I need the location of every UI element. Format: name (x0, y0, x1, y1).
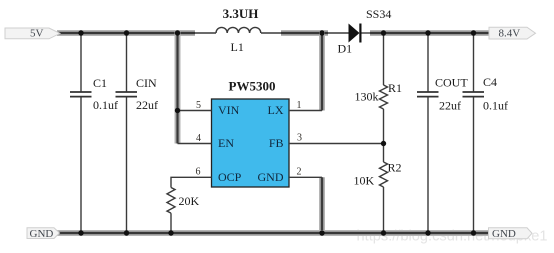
wire pin 2 GND (289, 176, 322, 178)
net flag 8.4V (489, 27, 536, 39)
wire pin 4 EN (178, 143, 212, 145)
capacitor C4 (463, 33, 509, 233)
svg-text:GND: GND (30, 228, 54, 240)
svg-text:D1: D1 (338, 42, 353, 56)
net flag GND right (489, 228, 533, 240)
junction bottom COUT (425, 230, 430, 235)
svg-text:CIN: CIN (136, 76, 157, 90)
resistor R1 130k (355, 33, 403, 162)
junction pin5 feeder (175, 108, 180, 113)
junction bottom C4 (471, 230, 476, 235)
net flag GND left (27, 228, 60, 240)
svg-text:10K: 10K (354, 174, 375, 188)
svg-text:22uf: 22uf (439, 99, 461, 113)
svg-text:6: 6 (196, 167, 201, 178)
svg-text:3.3UH: 3.3UH (223, 6, 259, 21)
junction output rail COUT (425, 30, 430, 35)
wire pin 5 VIN (178, 110, 212, 112)
svg-text:R2: R2 (388, 161, 402, 175)
svg-text:C4: C4 (483, 75, 497, 89)
svg-text:GND: GND (258, 170, 284, 184)
op-amp U1 PW5300 (212, 79, 290, 188)
capacitor C1 (70, 33, 118, 233)
svg-text:GND: GND (492, 228, 516, 240)
svg-text:PW5300: PW5300 (229, 79, 276, 94)
junction bottom GND riser (319, 230, 324, 235)
resistor R2 10K (354, 161, 402, 234)
svg-text:5V: 5V (30, 28, 44, 40)
diode D1 SS34 (328, 7, 391, 56)
svg-text:0.1uf: 0.1uf (483, 99, 508, 113)
junction top rail feeder (175, 30, 180, 35)
junction top rail CIN (124, 30, 129, 35)
junction output rail C4 (471, 30, 476, 35)
junction FB divider (381, 141, 386, 146)
svg-text:LX: LX (268, 103, 284, 117)
svg-text:0.1uf: 0.1uf (93, 98, 118, 112)
svg-text:4: 4 (196, 133, 201, 144)
junction bottom C1 (78, 230, 83, 235)
svg-text:C1: C1 (93, 76, 107, 90)
junction top rail LX riser (319, 30, 324, 35)
junction bottom R2 (381, 230, 386, 235)
wire pin 1 LX (289, 110, 322, 112)
wire LX riser vertical (319, 31, 325, 111)
wire top 5V rail (57, 30, 195, 36)
svg-text:2: 2 (297, 167, 302, 178)
svg-text:1: 1 (297, 100, 302, 111)
svg-text:5: 5 (196, 100, 201, 111)
svg-text:R1: R1 (388, 81, 402, 95)
net flag 5V (5, 28, 60, 40)
wire VIN/EN feeder vertical (175, 31, 181, 144)
wire 8.4V output rail (370, 30, 492, 36)
svg-text:FB: FB (269, 136, 284, 150)
svg-text:COUT: COUT (435, 76, 468, 90)
wire top rail inductor-to-LX segment (281, 30, 328, 36)
wire pin 6 OCP (171, 177, 212, 187)
svg-text:3: 3 (297, 133, 302, 144)
junction top rail C1 (78, 30, 83, 35)
wire GND riser vertical (319, 177, 325, 233)
svg-text:SS34: SS34 (366, 7, 391, 21)
svg-text:20K: 20K (179, 194, 200, 208)
resistor 20K (167, 188, 200, 234)
svg-text:8.4V: 8.4V (499, 28, 521, 40)
svg-text:L1: L1 (231, 40, 244, 54)
svg-text:OCP: OCP (218, 170, 242, 184)
junction bottom CIN (124, 230, 129, 235)
wire bottom GND rail (57, 230, 489, 236)
capacitor CIN (116, 33, 159, 233)
inductor L1 3.3UH (195, 6, 281, 54)
svg-text:130k: 130k (355, 90, 379, 104)
capacitor COUT (417, 33, 468, 233)
svg-text:22uf: 22uf (136, 98, 158, 112)
junction bottom 20K (168, 230, 173, 235)
wire pin 3 FB (289, 143, 384, 145)
svg-text:EN: EN (218, 136, 234, 150)
junction output rail R1 (381, 30, 386, 35)
svg-text:VIN: VIN (218, 103, 240, 117)
